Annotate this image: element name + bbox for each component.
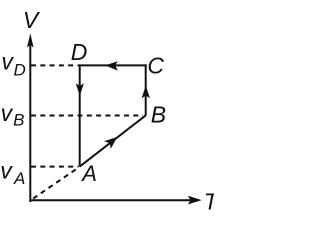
- V axis arrowhead: [27, 33, 34, 47]
- dashed diagonal through origin to A: [31, 167, 79, 200]
- process line C to D (horizontal): [79, 64, 147, 66]
- svg-text:v: v: [1, 100, 14, 126]
- arrow B to C (upward): [142, 86, 150, 99]
- svg-text:D: D: [14, 60, 26, 79]
- T axis line: [29, 199, 191, 201]
- process line A to B (diagonal): [80, 115, 146, 166]
- svg-text:A: A: [80, 161, 97, 186]
- arrow A to B (up-right along diagonal): [104, 137, 118, 149]
- svg-text:B: B: [151, 101, 166, 127]
- dashed level line vD: [31, 64, 80, 66]
- svg-text:B: B: [13, 111, 24, 130]
- arrow C to D (leftward): [105, 61, 118, 70]
- T axis arrowhead: [188, 196, 202, 205]
- dashed level line vB: [31, 115, 143, 117]
- arrow D to A (downward): [76, 83, 84, 96]
- svg-text:v: v: [0, 158, 13, 184]
- V axis line: [29, 44, 31, 202]
- svg-text:C: C: [147, 53, 164, 79]
- process line B to C (vertical): [145, 64, 147, 115]
- svg-text:T: T: [204, 189, 214, 210]
- svg-text:D: D: [71, 39, 88, 65]
- dashed level line vA: [31, 166, 79, 168]
- process line D to A (isochoric-like vertical): [79, 65, 81, 166]
- svg-text:A: A: [13, 169, 25, 188]
- svg-text:V: V: [23, 7, 41, 33]
- svg-text:v: v: [1, 49, 14, 75]
